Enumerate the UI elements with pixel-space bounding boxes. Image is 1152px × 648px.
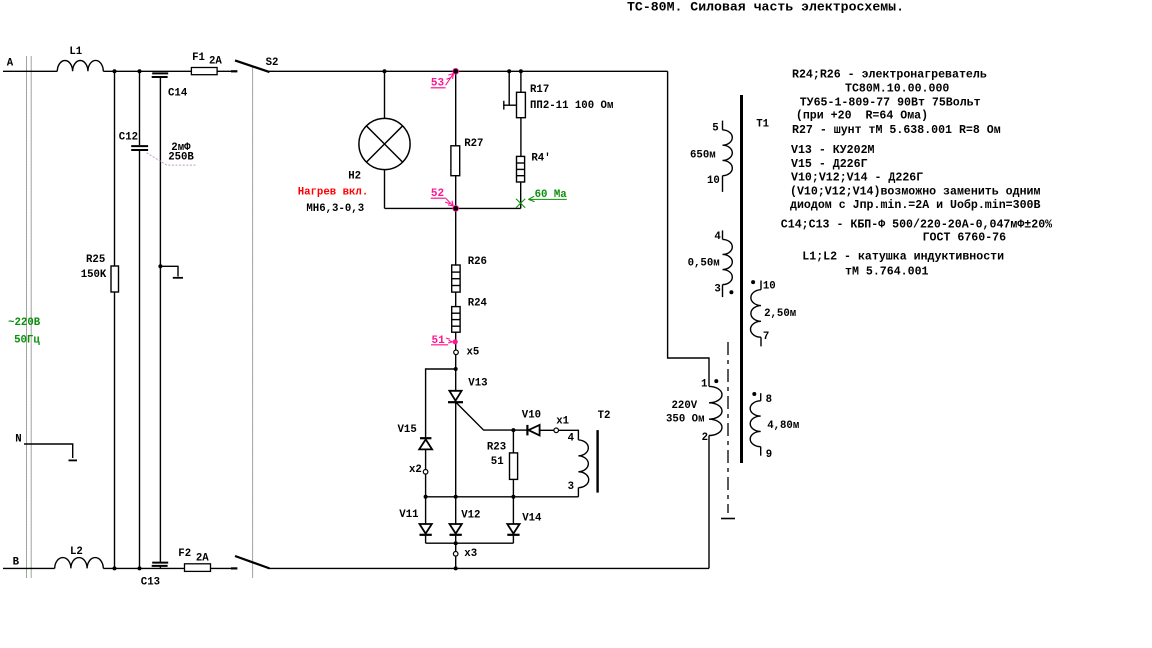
svg-text:V14: V14 [522, 513, 542, 525]
svg-text:тМ 5.764.001: тМ 5.764.001 [845, 266, 929, 279]
svg-text:60 Ма: 60 Ма [535, 189, 568, 201]
svg-text:R23: R23 [487, 442, 506, 454]
measurement mark 60mA [516, 196, 567, 208]
wire R25 branch [114, 71, 116, 266]
dotted reference line left pair [27, 56, 253, 578]
wire shield tap [160, 266, 178, 276]
junction rectifier bus / V14 [511, 495, 515, 499]
thyristor V13 [448, 391, 463, 402]
svg-text:C12: C12 [119, 132, 138, 144]
svg-text:4,80м: 4,80м [767, 420, 799, 432]
svg-text:ТУ65-1-809-77 90Вт 75Вольт: ТУ65-1-809-77 90Вт 75Вольт [800, 97, 981, 110]
transformer T1 core [740, 95, 743, 463]
svg-text:10: 10 [707, 175, 720, 187]
svg-text:R24: R24 [468, 298, 488, 310]
wire top bus A [3, 70, 57, 72]
wire C14-C13 branch [159, 78, 161, 562]
leader line C12 value [147, 153, 196, 165]
connector x3 [453, 552, 458, 557]
wire top bus to switch [103, 70, 231, 72]
svg-text:V15 - Д226Г: V15 - Д226Г [791, 158, 868, 171]
termination bar shield tap [173, 277, 183, 279]
inductor L2 [55, 558, 104, 569]
diode V11 [420, 524, 432, 535]
diode V14 [507, 524, 519, 535]
svg-text:V13 - КУ202М: V13 - КУ202М [791, 144, 875, 157]
junction C14-C13 wire tap [158, 264, 162, 268]
switch S3 bottom [231, 567, 237, 569]
diode V12 [450, 524, 462, 535]
svg-text:8: 8 [766, 394, 772, 406]
wire right bus up from bottom [708, 436, 710, 569]
svg-text:x5: x5 [467, 346, 480, 358]
svg-text:S2: S2 [266, 57, 279, 69]
junction top bus / R25 branch [113, 69, 117, 73]
polarity dot winding 10-7 [751, 280, 755, 284]
wire C12 branch [139, 71, 141, 145]
capacitor C12 [131, 146, 148, 150]
inductor T2 winding [578, 440, 588, 488]
svg-text:F2: F2 [178, 548, 191, 560]
svg-text:R27 - шунт тМ 5.638.001 R=8 Ом: R27 - шунт тМ 5.638.001 R=8 Ом [792, 124, 1001, 137]
node 51 [431, 335, 458, 347]
svg-text:x2: x2 [409, 464, 422, 476]
svg-text:Нагрев вкл.: Нагрев вкл. [298, 187, 369, 199]
wire N termination [24, 444, 73, 458]
switch S2 [231, 60, 270, 568]
wire V10 connections [513, 429, 527, 431]
diode V15 [419, 438, 432, 449]
svg-text:L1: L1 [69, 46, 82, 58]
svg-text:V15: V15 [398, 424, 417, 436]
wire mid chain [455, 208, 457, 265]
svg-text:250В: 250В [168, 151, 194, 163]
inductor L1 [57, 60, 103, 71]
junction top bus / R17 [519, 69, 523, 73]
wire R27 branch [455, 71, 457, 146]
svg-text:0,50м: 0,50м [688, 258, 720, 270]
connector x1 [554, 428, 559, 433]
svg-text:10: 10 [763, 280, 776, 292]
wire R17 wiper branch [504, 71, 509, 105]
junction top bus / C12 branch [138, 69, 142, 73]
inductor T1 winding 5-10 [723, 130, 733, 176]
junction diode output bus [454, 541, 458, 545]
wire T2 bottom [577, 488, 579, 497]
wire right bus down [668, 71, 709, 386]
svg-text:ГОСТ 6760-76: ГОСТ 6760-76 [923, 232, 1007, 245]
svg-text:V10: V10 [522, 410, 541, 422]
svg-text:диодом с Jпр.min.=2А и Uобр.mi: диодом с Jпр.min.=2А и Uобр.min=300В [790, 199, 1041, 212]
svg-text:R27: R27 [464, 138, 483, 150]
svg-text:51: 51 [491, 456, 504, 468]
svg-text:ПП2-11 100 Ом: ПП2-11 100 Ом [530, 100, 613, 112]
wire bottom bus B [3, 567, 55, 569]
svg-text:(при +20 R=64 Ома): (при +20 R=64 Ома) [796, 110, 928, 123]
svg-text:R25: R25 [86, 254, 105, 266]
svg-text:Н2: Н2 [348, 171, 361, 183]
wire x1 to T2 [558, 430, 578, 440]
resistor R24 [452, 307, 460, 333]
capacitor C14 [152, 73, 169, 77]
termination bar N [69, 459, 78, 461]
svg-text:1: 1 [701, 379, 707, 391]
junction bottom bus / R25 branch [113, 566, 117, 570]
svg-text:C14;C13 - КБП-Ф 500/220-20А-0,: C14;C13 - КБП-Ф 500/220-20А-0,047мФ±20% [781, 219, 1052, 232]
wire lamp branch [384, 71, 386, 118]
wire R23 branch [512, 430, 514, 453]
svg-text:A: A [7, 58, 14, 70]
svg-text:5: 5 [712, 123, 718, 135]
diode V10 [527, 425, 539, 436]
svg-text:V12: V12 [461, 510, 480, 522]
wire V13 gate [456, 403, 513, 431]
svg-text:T1: T1 [756, 119, 769, 131]
svg-text:2: 2 [702, 432, 708, 444]
svg-text:R17: R17 [530, 84, 549, 96]
wire T1 primary top [722, 121, 724, 130]
junction bottom bus / C12 branch [138, 566, 142, 570]
svg-text:220V: 220V [672, 400, 698, 412]
svg-text:L2: L2 [70, 546, 83, 558]
resistor R23 [510, 453, 518, 480]
svg-text:C14: C14 [168, 88, 188, 100]
svg-text:B: B [13, 557, 20, 569]
wire rectifier bus [426, 496, 579, 498]
svg-text:50Гц: 50Гц [14, 335, 40, 347]
svg-text:350 Ом: 350 Ом [666, 414, 704, 426]
svg-text:3: 3 [568, 481, 574, 493]
wire bottom bus after switch [269, 567, 709, 569]
junction rectifier bus / V11 [424, 495, 428, 499]
svg-text:7: 7 [763, 331, 769, 343]
svg-text:V11: V11 [399, 509, 418, 521]
node 53 [431, 68, 459, 90]
polarity dot winding 4-3 [729, 290, 733, 294]
wire node52 horizontal [385, 207, 521, 209]
potentiometer R17 [517, 92, 526, 117]
svg-text:x1: x1 [556, 416, 569, 428]
junction bottom bus / x3 branch [454, 566, 458, 570]
svg-text:R24;R26 - электронагреватель: R24;R26 - электронагреватель [792, 69, 987, 82]
svg-text:F1: F1 [192, 52, 205, 64]
svg-text:R4': R4' [531, 152, 550, 164]
wire top bus after switch [269, 70, 668, 72]
svg-text:150K: 150K [81, 269, 107, 281]
resistor R26 [452, 265, 460, 292]
svg-text:2A: 2A [196, 552, 209, 564]
svg-text:T2: T2 [598, 410, 611, 422]
svg-text:V10;V12;V14 - Д226Г: V10;V12;V14 - Д226Г [791, 172, 923, 185]
junction top bus / lamp branch [383, 69, 387, 73]
svg-text:x3: x3 [464, 548, 477, 560]
wire lower diode bus [426, 542, 514, 544]
connector x2 [423, 470, 428, 475]
lamp H2 [359, 118, 410, 169]
svg-text:(V10;V12;V14)возможно заменить: (V10;V12;V14)возможно заменить одним [790, 186, 1041, 199]
svg-text:4: 4 [568, 433, 575, 445]
polarity dot winding 8-9 [752, 392, 756, 396]
svg-text:650м: 650м [690, 150, 716, 162]
resistor R25 [111, 266, 119, 292]
polarity dot winding 1-2 [714, 379, 718, 383]
svg-text:ТС80М.10.00.000: ТС80М.10.00.000 [845, 83, 949, 96]
svg-text:ТС-80М. Силовая часть электрос: ТС-80М. Силовая часть электросхемы. [627, 0, 904, 15]
capacitor C13 [152, 563, 169, 566]
node 52 [431, 188, 459, 212]
fuse F1 [191, 68, 217, 75]
svg-text:2A: 2A [209, 56, 222, 68]
svg-text:МН6,3-0,3: МН6,3-0,3 [306, 203, 364, 215]
resistor R4' [517, 156, 525, 182]
connector x5 [454, 350, 459, 355]
junction rectifier bus / V12 [454, 495, 458, 499]
svg-text:~220В: ~220В [8, 317, 41, 329]
svg-text:9: 9 [766, 449, 772, 461]
junction gate wire / R23 [511, 428, 515, 432]
inductor T1 winding 8-9 [760, 393, 762, 401]
junction V13 anode / V15 branch [454, 367, 458, 371]
junction top bus / R17 wiper [507, 69, 511, 73]
svg-text:L1;L2 - катушка индуктивности: L1;L2 - катушка индуктивности [802, 251, 1004, 264]
svg-text:C13: C13 [141, 576, 160, 588]
svg-text:N: N [15, 433, 21, 445]
wire V15 branch [426, 369, 456, 437]
shield dashed line [727, 342, 729, 513]
svg-text:2,50м: 2,50м [764, 308, 796, 320]
svg-text:R26: R26 [468, 256, 487, 268]
wire bottom bus to switch [103, 567, 231, 569]
transformer T2 core [596, 430, 598, 493]
inductor T1 winding 10-7 [760, 281, 762, 290]
svg-text:3: 3 [714, 284, 720, 296]
inductor T1 winding 1-2 [709, 386, 722, 435]
svg-text:4: 4 [714, 231, 721, 243]
inductor T1 winding 4-3 [722, 230, 724, 239]
wire R17 branch [520, 71, 522, 92]
svg-text:V13: V13 [468, 378, 487, 390]
resistor R27 [451, 146, 460, 176]
fuse F2 [185, 564, 211, 572]
